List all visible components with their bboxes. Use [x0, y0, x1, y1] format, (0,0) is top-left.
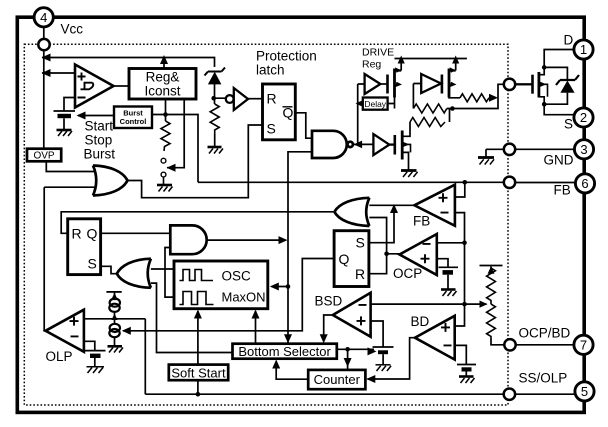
svg-text:Delay: Delay [364, 99, 386, 109]
pin 5 SS/OLP [575, 382, 594, 401]
arrow left latch2 Q to current source [122, 327, 131, 335]
wire Reg box bottom to burst resistor [165, 99, 167, 122]
resistor R zener [210, 104, 219, 134]
wire M2 source to R3 [449, 96, 460, 99]
box Delay [363, 98, 388, 110]
node dot bottom selector right junction [345, 347, 350, 352]
wire opamp output to Reg box [114, 85, 130, 87]
node dot driver resistor junction [450, 106, 455, 111]
svg-text:BD: BD [411, 314, 430, 329]
wire M3 source to ground [402, 152, 408, 169]
svg-text:Vcc: Vcc [61, 22, 84, 37]
wire current source stack [114, 292, 116, 346]
wire Bottom Selector to OSC [255, 311, 257, 344]
node dot burst junction [163, 112, 168, 117]
capacitor C OLP [85, 351, 106, 367]
ground below burst divider [157, 185, 173, 192]
svg-text:2: 2 [580, 110, 587, 125]
wire Qbar to NAND top input [295, 113, 312, 138]
wire gnd node to ground and pin3 [486, 149, 575, 157]
svg-text:OCP/BD: OCP/BD [519, 326, 571, 341]
svg-text:DRIVE: DRIVE [362, 47, 394, 59]
arrow up below CS bar at OCP resistor [488, 266, 495, 273]
svg-text:latch: latch [256, 63, 285, 78]
node circle Vcc entry [38, 39, 49, 50]
wire R2 right end up [449, 109, 451, 123]
wire opamp minus to capacitor [64, 98, 75, 112]
node dot zener buffer junction [211, 96, 216, 101]
wire OR1 bottom input from Bottom Selector [151, 283, 233, 352]
svg-text:Soft Start: Soft Start [171, 365, 226, 380]
wire AND second input from OSC MaxON [165, 248, 174, 298]
comparator BSD left-pointing [333, 293, 371, 337]
pin 6 FB [575, 174, 594, 193]
svg-text:OSC: OSC [222, 269, 252, 284]
wire BSD plus to cap [371, 321, 384, 347]
wire AND output to bus [207, 239, 286, 241]
NAND gate [312, 131, 353, 158]
wire OVP output to OR gate [46, 161, 94, 172]
node dot FB line tap [463, 180, 468, 185]
svg-text:Iconst: Iconst [144, 84, 180, 99]
wire resistor R1 out to gate drive node [447, 84, 504, 108]
op-amp Reg comparator with hysteresis [75, 65, 114, 108]
svg-text:BSD: BSD [315, 294, 343, 309]
svg-text:Protection: Protection [256, 49, 317, 64]
wire OSC output to OR1 top input [151, 268, 174, 270]
wire Soft Start line to OSC [197, 311, 199, 394]
svg-text:Control: Control [120, 117, 147, 126]
pin 7 OCP/BD [574, 335, 593, 354]
buffer U inverter with input bubble [226, 88, 248, 110]
box Reg&Iconst [129, 69, 196, 100]
wire FB comparator output to OR2 [369, 204, 413, 206]
svg-text:S: S [88, 256, 97, 272]
wire OLP minus to cap [84, 341, 95, 350]
wire gate node to power MOSFET gate [515, 83, 532, 85]
wire latch2 Q to current source B [123, 259, 334, 331]
svg-text:Stop: Stop [85, 133, 113, 148]
current source B [109, 324, 120, 337]
arrow right BSD minus to resistor tap [480, 301, 488, 308]
wire body diode bottom to source [544, 93, 567, 105]
buffer mid driver [421, 74, 441, 93]
latch SQR right [334, 231, 369, 287]
wire Counter feedback to Bottom Selector [276, 362, 308, 380]
svg-text:OCP: OCP [393, 266, 422, 281]
wire M1 source down and delay tap [388, 97, 395, 109]
wire FB plus input drop [455, 182, 465, 197]
arrow up M1 drain at rail [398, 56, 405, 64]
pin 4 Vcc [34, 8, 53, 27]
wire body diode top [544, 67, 567, 79]
pin 1 D [574, 40, 593, 59]
svg-text:OVP: OVP [33, 151, 54, 162]
arrow down bus to Bottom Selector [284, 334, 292, 343]
svg-text:Q: Q [87, 226, 98, 242]
box OSC MaxON [174, 261, 268, 309]
svg-text:Burst: Burst [84, 147, 116, 162]
arrow down to Counter top [344, 358, 352, 367]
resistor R1 driver horizontal [413, 104, 446, 113]
node dot bus OSC tap [286, 284, 291, 289]
arrow left opamp plus line to Vcc line [42, 69, 51, 77]
wire FB net long horizontal [198, 181, 504, 183]
node circle ss/olp [504, 389, 515, 400]
dotted IC boundary [24, 44, 508, 405]
capacitor C BSD [373, 347, 394, 365]
wire OR2 output long line to latch1 R [61, 212, 334, 234]
svg-text:Start: Start [85, 119, 114, 134]
buffer low side [373, 134, 389, 155]
wire latch1 Q to AND gate [101, 232, 171, 234]
arrow up Bottom Selector to OSC [252, 310, 260, 319]
arrow right Bottom Selector to C BSD [368, 347, 377, 355]
node dot power MOSFET source diode junction [542, 102, 547, 107]
OR gate OVP/OLP [93, 166, 128, 196]
arrow up Counter to Bottom Selector [272, 360, 280, 369]
node circle fb [504, 177, 515, 188]
svg-text:1: 1 [580, 42, 587, 57]
wire R2 left end to M3 drain [402, 122, 410, 136]
capacitor C OCP [439, 267, 459, 289]
svg-text:R: R [355, 266, 365, 282]
arrow down BSD out to Bottom Selector [320, 334, 328, 343]
box Soft Start [169, 365, 228, 381]
svg-text:GND: GND [544, 153, 574, 168]
wire OCP plus to cap [437, 259, 448, 267]
wire buffer2 input vertical [413, 84, 421, 109]
wire BSD output to Bottom Selector [324, 315, 332, 342]
wire drive buffer output to M1 gate [380, 83, 386, 85]
svg-text:OLP: OLP [46, 349, 73, 364]
wire OCP resistor chain connections [491, 267, 504, 345]
svg-text:FB: FB [554, 183, 571, 198]
svg-text:SS/OLP: SS/OLP [519, 371, 568, 386]
wire OCP minus input [437, 242, 465, 244]
arrow right R3 to gate node [489, 94, 498, 102]
node dot BSD minus BD plus junction [462, 302, 467, 307]
arrow up small at CS junction [112, 314, 118, 321]
OR gate mini left-pointing [117, 259, 151, 288]
body diode zener [556, 75, 579, 93]
svg-text:7: 7 [580, 338, 587, 353]
wire OLP output up to OR gate input [44, 187, 96, 331]
arrow right AND output to bus [279, 236, 288, 244]
svg-text:3: 3 [580, 142, 587, 157]
wire OVP-OR output to protection latch S [128, 125, 263, 198]
wire power MOSFET source to pin2 [539, 97, 574, 115]
svg-text:S: S [564, 117, 573, 132]
wire inverter output to protection latch R [248, 98, 263, 100]
ground symbol for GND pin [478, 158, 494, 165]
transistor M2 driver [442, 69, 456, 98]
arrow left delay to NAND vertical [356, 100, 364, 107]
wire bus tap to OSC right [272, 286, 289, 288]
wire BD output to Counter [368, 338, 415, 379]
svg-text:S: S [267, 121, 276, 137]
current source bar above OCP resistor [480, 265, 503, 267]
pin 2 S [574, 108, 593, 127]
node circle gnd [504, 144, 515, 155]
box Burst Control [114, 107, 152, 129]
wire opamp plus input from Vcc line [42, 72, 75, 74]
wire latch1 S from OR1 output [101, 266, 117, 273]
wire delay arrow line [358, 103, 363, 105]
wire M1 drain to rail [400, 59, 402, 71]
wire power MOSFET drain to pin1 [539, 50, 574, 75]
switch tap circles [161, 158, 166, 163]
wire OCP/BD node to pin7 [516, 344, 574, 346]
wire NAND bottom input to main bus [288, 152, 312, 343]
wire burst control line to FB net vertical [152, 115, 198, 183]
comparator BD left-pointing [415, 316, 455, 360]
node dot OCP output junction [384, 252, 389, 257]
arrow up latch2 S vertical to FB out [390, 204, 398, 213]
wire burst control to cap node [78, 115, 114, 117]
latch protection RS [263, 84, 296, 140]
transistor M3 low side [389, 131, 402, 160]
svg-text:Counter: Counter [314, 372, 361, 387]
box Counter [308, 370, 365, 389]
arrow left NAND output junction from drive vertical [354, 141, 363, 149]
wire SS/OLP long line to pin5 [145, 319, 575, 394]
latch RQ S lower left [68, 219, 101, 275]
wire zener anode to resistor, branch to inverter [214, 84, 226, 104]
pin 3 GND [574, 140, 593, 159]
zener diode D1 [205, 68, 226, 85]
node circle gate [504, 79, 515, 90]
wire OLP plus to current source junction [84, 318, 145, 320]
ground below current source B [108, 346, 124, 352]
text DRIVE Reg [362, 47, 394, 71]
text Start Stop Burst [84, 119, 116, 162]
wire BSD minus line [371, 303, 487, 305]
wire zener rail from Vcc line to zener top [42, 58, 215, 68]
ground below C OCP [441, 290, 457, 297]
node dot power MOSFET drain diode junction [542, 65, 547, 70]
arrow left BD to Counter [366, 375, 375, 383]
capacitor C1 below op-amp minus [54, 111, 76, 130]
buffer DRIVE Reg [365, 74, 381, 94]
svg-text:MaxON: MaxON [222, 290, 266, 305]
node dot FB minus OCP minus junction [462, 241, 467, 246]
wire Reg box bottom right to tap arrow [167, 99, 184, 168]
svg-text:R: R [72, 226, 82, 242]
wire BD minus to cap [455, 345, 467, 364]
ground below R zener [208, 147, 224, 154]
svg-text:R: R [267, 91, 277, 107]
wire M2 drain to rail [455, 59, 457, 71]
svg-text:FB: FB [413, 214, 430, 229]
text Protection latch [256, 49, 317, 78]
wire NAND output junction with vertical to drive [353, 84, 374, 144]
ground below C1 [57, 130, 73, 136]
wire OR2 bottom input vertical and OCP output and latch2 R [369, 218, 400, 274]
comparator OLP left-pointing [46, 310, 84, 352]
ground below M3 [401, 171, 418, 178]
svg-text:Q: Q [339, 251, 350, 267]
svg-text:Reg&: Reg& [146, 70, 180, 85]
wire Reg box top to rail [163, 58, 165, 69]
resistor R burst divider [161, 121, 170, 151]
transistor Q1 power MOSFET [516, 72, 539, 98]
arrow up M2 drain at rail [452, 56, 459, 64]
ground below C OLP [87, 367, 105, 373]
wire internal supply rail [395, 58, 467, 60]
ground below C BSD [376, 365, 392, 371]
svg-text:D: D [564, 33, 574, 48]
svg-text:S: S [356, 235, 365, 251]
OR gate 2 left-pointing [334, 198, 369, 226]
node dot soft start SS line junction [196, 392, 201, 397]
arrow up Reg box to rail [160, 55, 168, 64]
resistor R3 driver horizontal [460, 94, 489, 102]
resistor R OCP chain upper [487, 268, 496, 304]
box Bottom Selector [233, 344, 337, 359]
arrow left tap from Reg box [167, 164, 176, 172]
resistor R2 driver horizontal [410, 118, 445, 127]
current source A [106, 292, 121, 312]
box OVP [27, 149, 61, 162]
arrow left bus to OSC [270, 283, 279, 291]
transistor M1 driver PMOS [388, 69, 402, 98]
wire Vcc vertical from pin4 down to OVP [43, 27, 45, 149]
wire latch2 S input and vertical to FB out [369, 207, 394, 243]
svg-text:Bottom Selector: Bottom Selector [238, 344, 331, 359]
svg-text:Reg: Reg [362, 59, 381, 71]
comparator FB left-pointing [414, 185, 455, 226]
arrow left zener rail to Vcc line [42, 54, 51, 62]
wire FB minus long vertical [455, 213, 465, 326]
wire Bottom Selector right to cap and counter [337, 349, 374, 370]
ground below C BD [459, 377, 475, 384]
arrow left burst control to cap node [77, 112, 86, 120]
arrow up Soft Start line to OSC [194, 310, 202, 319]
svg-text:5: 5 [581, 384, 588, 399]
resistor R OCP chain lower [487, 304, 496, 338]
wire fb node to pin6 [515, 182, 575, 184]
svg-text:4: 4 [40, 10, 47, 25]
node circle ocp/bd [504, 339, 515, 350]
svg-text:6: 6 [581, 176, 588, 191]
arrow up below CS A bar [111, 293, 118, 300]
AND gate [170, 225, 206, 254]
comparator OCP left-pointing [400, 234, 437, 275]
capacitor C BD [457, 365, 476, 377]
